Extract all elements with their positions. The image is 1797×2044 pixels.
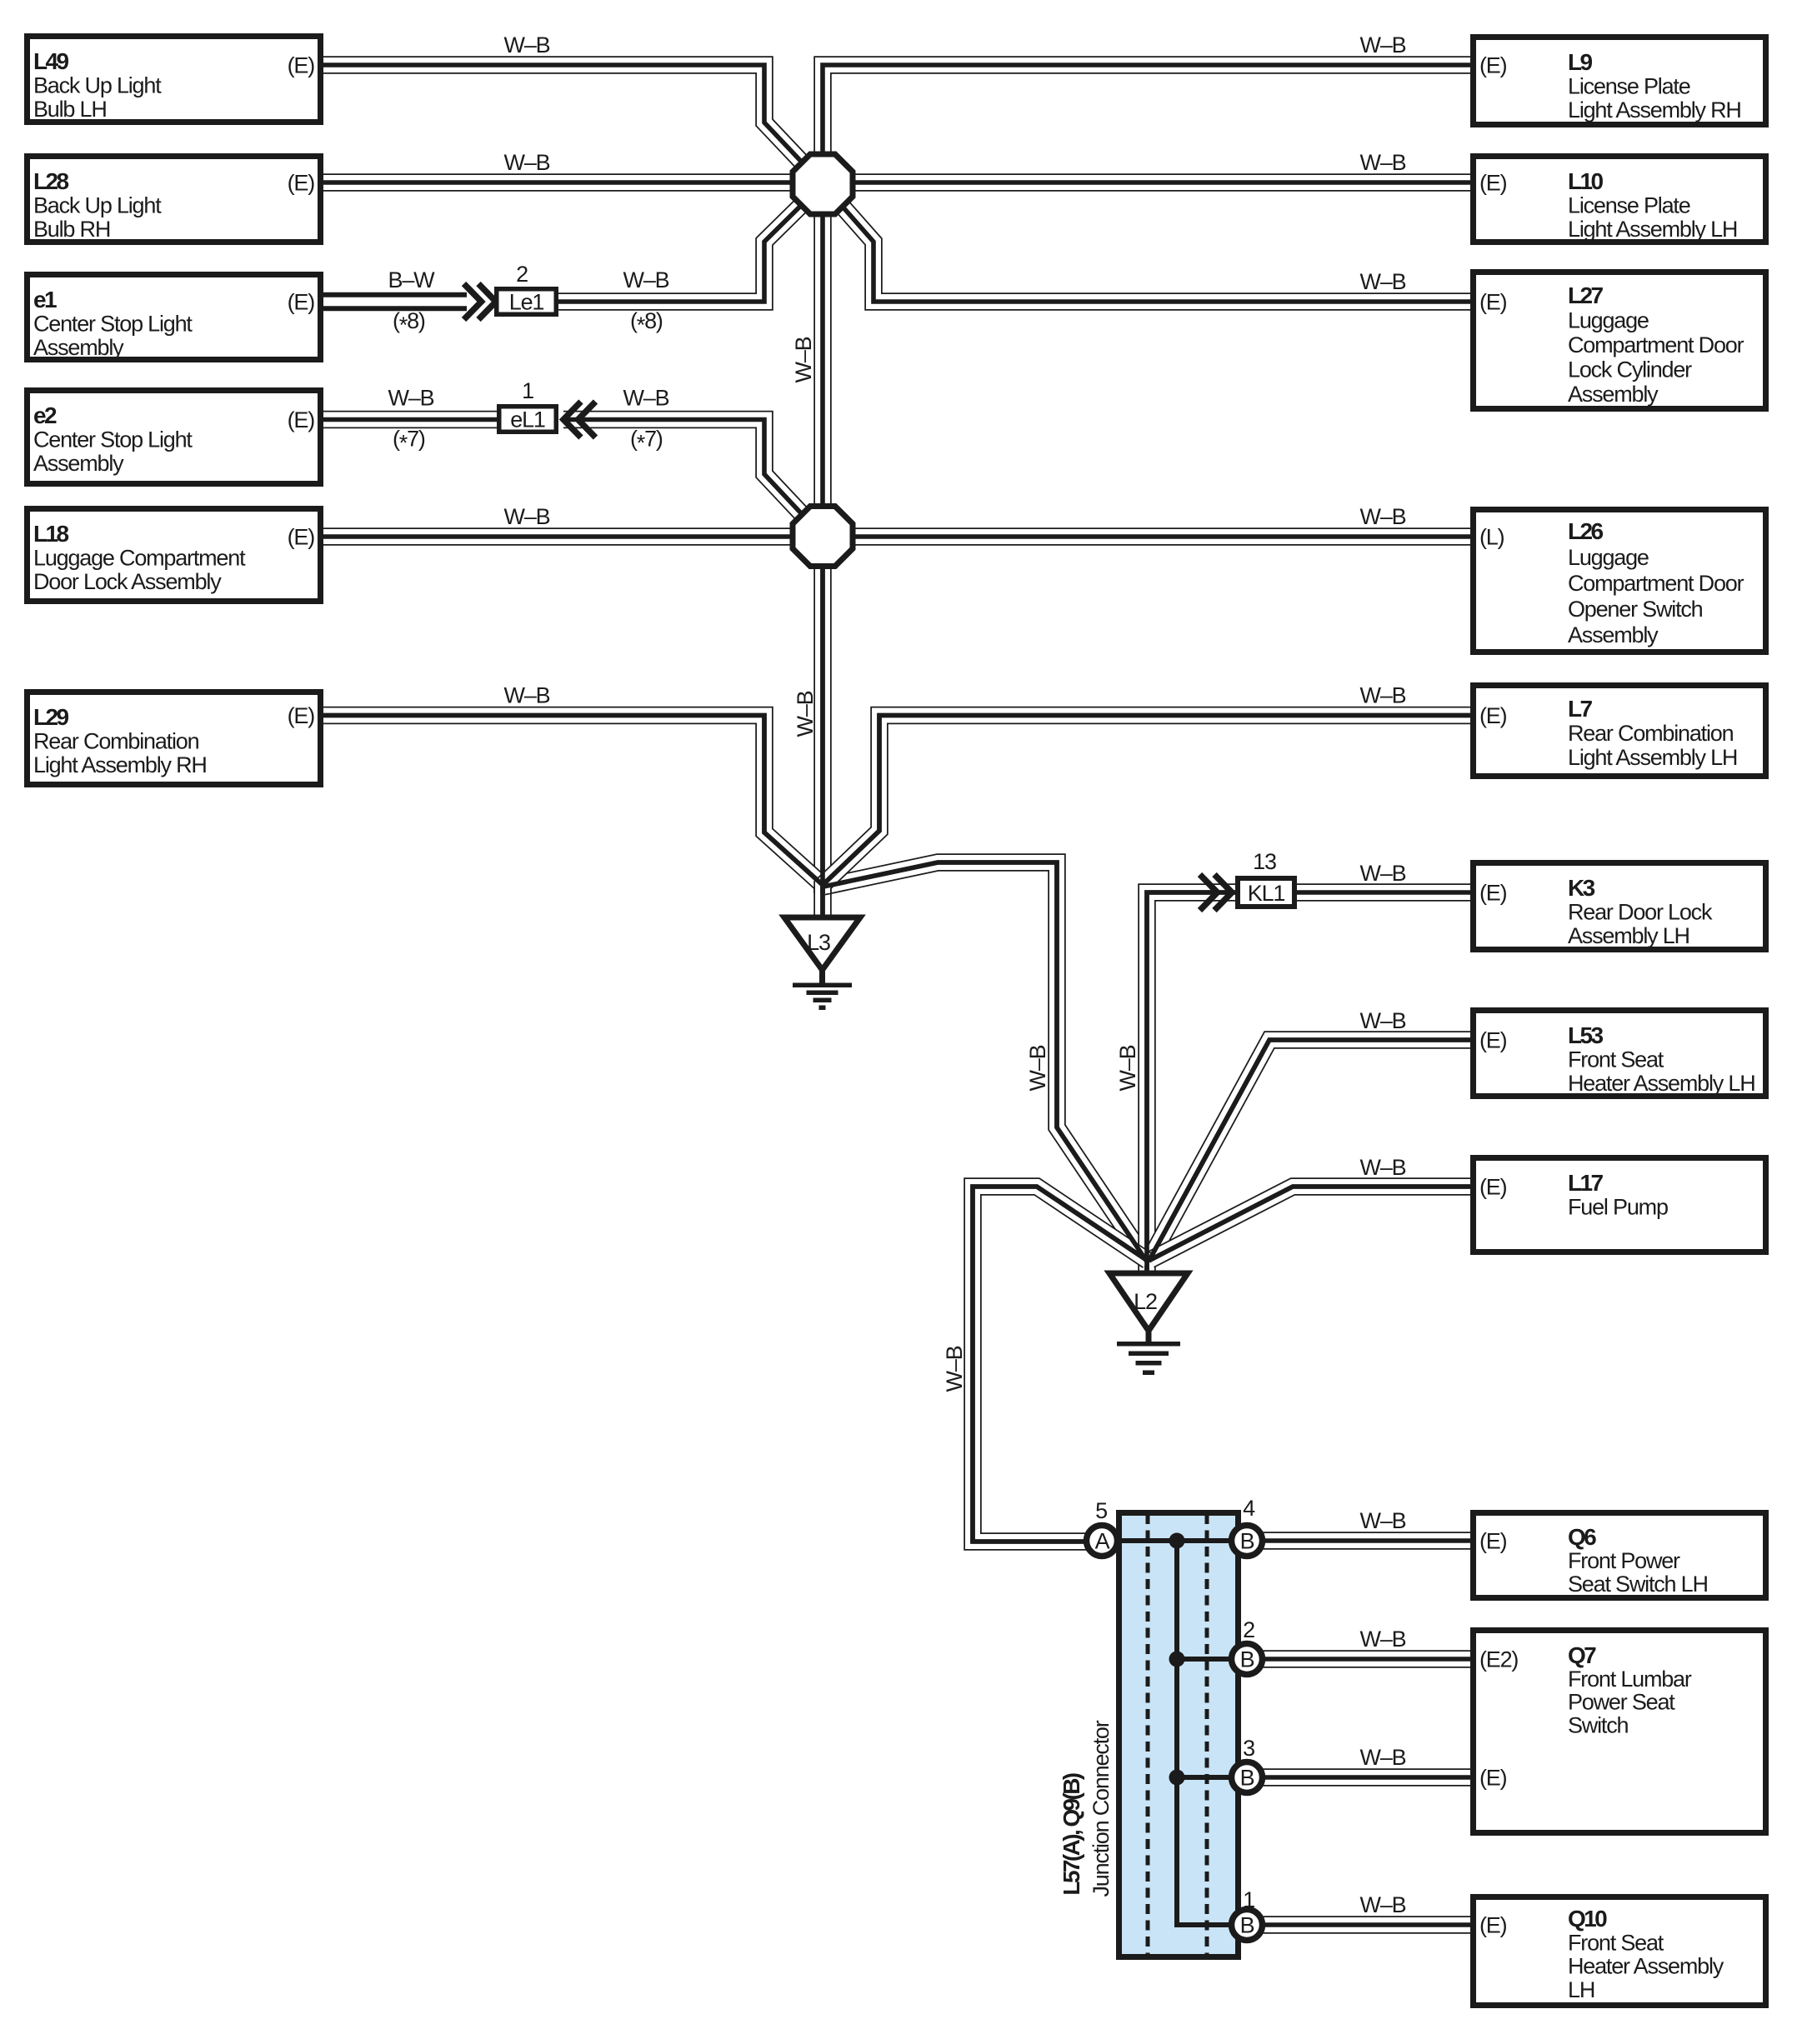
- svg-text:Rear Combination: Rear Combination: [1568, 721, 1734, 746]
- svg-text:Luggage: Luggage: [1568, 308, 1649, 333]
- svg-text:Lock Cylinder: Lock Cylinder: [1568, 357, 1692, 382]
- svg-text:B: B: [1240, 1529, 1254, 1554]
- svg-text:W–B: W–B: [504, 32, 550, 57]
- svg-text:Heater Assembly LH: Heater Assembly LH: [1568, 1071, 1755, 1096]
- svg-text:L27: L27: [1568, 282, 1603, 308]
- svg-text:2: 2: [1243, 1617, 1254, 1642]
- svg-text:Assembly: Assembly: [1568, 622, 1659, 647]
- svg-text:Door Lock Assembly: Door Lock Assembly: [33, 569, 222, 594]
- svg-text:W–B: W–B: [504, 683, 550, 708]
- svg-text:W–B: W–B: [504, 150, 550, 175]
- svg-text:L7: L7: [1568, 696, 1593, 722]
- svg-text:4: 4: [1243, 1496, 1255, 1521]
- svg-text:Junction Connector: Junction Connector: [1089, 1720, 1114, 1897]
- svg-text:3: 3: [1243, 1736, 1254, 1761]
- svg-text:(E): (E): [1479, 1175, 1507, 1200]
- svg-text:Q7: Q7: [1568, 1642, 1596, 1668]
- svg-text:L49: L49: [33, 48, 68, 74]
- svg-text:Front Power: Front Power: [1568, 1548, 1680, 1573]
- svg-text:B: B: [1240, 1647, 1254, 1672]
- svg-text:(E2): (E2): [1479, 1647, 1518, 1672]
- svg-text:A: A: [1095, 1529, 1110, 1554]
- svg-text:L10: L10: [1568, 168, 1603, 194]
- svg-text:e1: e1: [33, 287, 57, 312]
- svg-text:W–B: W–B: [1360, 1155, 1406, 1180]
- svg-text:(E): (E): [288, 703, 315, 728]
- svg-text:Center Stop Light: Center Stop Light: [33, 312, 193, 337]
- svg-text:(E): (E): [1479, 290, 1507, 315]
- svg-text:Light Assembly RH: Light Assembly RH: [1568, 97, 1741, 122]
- svg-text:Switch: Switch: [1568, 1712, 1629, 1737]
- svg-text:Assembly: Assembly: [33, 335, 124, 360]
- svg-text:Back Up Light: Back Up Light: [33, 73, 162, 98]
- svg-text:Back Up Light: Back Up Light: [33, 193, 162, 218]
- svg-text:W–B: W–B: [1360, 683, 1406, 708]
- svg-text:L17: L17: [1568, 1170, 1603, 1196]
- svg-text:Compartment Door: Compartment Door: [1568, 571, 1744, 596]
- svg-text:L26: L26: [1568, 518, 1603, 544]
- svg-text:13: 13: [1253, 849, 1276, 874]
- svg-text:L2: L2: [1134, 1289, 1157, 1314]
- svg-text:W–B: W–B: [623, 386, 669, 411]
- svg-text:(E): (E): [1479, 881, 1507, 906]
- svg-text:Assembly: Assembly: [33, 451, 124, 476]
- svg-text:Rear Combination: Rear Combination: [33, 729, 199, 754]
- svg-text:(L): (L): [1479, 525, 1504, 550]
- svg-text:L9: L9: [1568, 49, 1593, 75]
- svg-text:(E): (E): [1479, 1913, 1507, 1938]
- svg-text:W–B: W–B: [791, 337, 816, 382]
- svg-text:W–B: W–B: [1360, 1892, 1406, 1917]
- svg-text:W–B: W–B: [504, 504, 550, 529]
- svg-text:W–B: W–B: [1360, 504, 1406, 529]
- svg-text:(E): (E): [288, 407, 315, 432]
- svg-text:W–B: W–B: [623, 267, 669, 292]
- svg-text:Opener Switch: Opener Switch: [1568, 597, 1703, 622]
- svg-text:B–W: B–W: [388, 267, 436, 292]
- svg-text:Front Lumbar: Front Lumbar: [1568, 1667, 1692, 1692]
- svg-text:L3: L3: [807, 930, 830, 955]
- svg-text:(E): (E): [1479, 53, 1507, 78]
- svg-text:L28: L28: [33, 168, 68, 194]
- svg-text:Rear Door Lock: Rear Door Lock: [1568, 900, 1713, 925]
- svg-text:Fuel Pump: Fuel Pump: [1568, 1195, 1668, 1220]
- svg-text:Light Assembly LH: Light Assembly LH: [1568, 217, 1737, 242]
- svg-text:License Plate: License Plate: [1568, 193, 1690, 218]
- svg-text:B: B: [1240, 1766, 1254, 1791]
- svg-text:K3: K3: [1568, 875, 1595, 901]
- svg-text:Power Seat: Power Seat: [1568, 1690, 1675, 1715]
- svg-text:Center Stop Light: Center Stop Light: [33, 427, 193, 452]
- svg-text:(E): (E): [288, 525, 315, 550]
- svg-text:KL1: KL1: [1248, 881, 1285, 906]
- svg-text:W–B: W–B: [1360, 1008, 1406, 1033]
- svg-text:W–B: W–B: [1360, 269, 1406, 294]
- svg-text:Seat Switch LH: Seat Switch LH: [1568, 1572, 1708, 1597]
- svg-text:Le1: Le1: [509, 290, 544, 315]
- svg-text:License Plate: License Plate: [1568, 74, 1690, 99]
- svg-text:W–B: W–B: [1360, 1508, 1406, 1533]
- svg-text:(E): (E): [288, 171, 315, 196]
- svg-text:e2: e2: [33, 402, 57, 428]
- svg-text:(E): (E): [1479, 171, 1507, 196]
- svg-text:(*8): (*8): [630, 308, 663, 337]
- svg-text:(E): (E): [288, 290, 315, 315]
- svg-text:W–B: W–B: [388, 386, 434, 411]
- svg-text:(E): (E): [288, 53, 315, 78]
- svg-text:W–B: W–B: [942, 1346, 967, 1392]
- svg-text:Assembly: Assembly: [1568, 382, 1659, 407]
- svg-text:(*7): (*7): [630, 427, 663, 456]
- svg-text:(*8): (*8): [393, 308, 425, 337]
- svg-text:Compartment Door: Compartment Door: [1568, 332, 1744, 357]
- svg-text:Heater Assembly: Heater Assembly: [1568, 1954, 1724, 1979]
- svg-text:L18: L18: [33, 521, 68, 547]
- svg-text:L53: L53: [1568, 1022, 1603, 1048]
- svg-text:W–B: W–B: [1360, 861, 1406, 886]
- svg-text:Luggage Compartment: Luggage Compartment: [33, 546, 246, 571]
- svg-text:Front Seat: Front Seat: [1568, 1047, 1664, 1072]
- svg-text:1: 1: [522, 378, 533, 403]
- svg-text:W–B: W–B: [1360, 1745, 1406, 1770]
- svg-text:LH: LH: [1568, 1977, 1594, 2002]
- svg-text:L57(A), Q9(B): L57(A), Q9(B): [1059, 1773, 1084, 1895]
- svg-text:W–B: W–B: [1025, 1045, 1050, 1091]
- svg-text:Assembly LH: Assembly LH: [1568, 923, 1689, 948]
- svg-text:W–B: W–B: [1115, 1045, 1140, 1091]
- svg-text:(E): (E): [1479, 1028, 1507, 1053]
- svg-text:eL1: eL1: [510, 407, 545, 432]
- svg-text:(E): (E): [1479, 1529, 1507, 1554]
- svg-text:Bulb LH: Bulb LH: [33, 97, 107, 122]
- svg-text:B: B: [1240, 1913, 1254, 1938]
- svg-text:L29: L29: [33, 704, 68, 730]
- svg-text:Luggage: Luggage: [1568, 545, 1649, 570]
- svg-text:(E): (E): [1479, 1766, 1507, 1791]
- svg-text:5: 5: [1095, 1498, 1107, 1523]
- svg-text:Q10: Q10: [1568, 1906, 1607, 1932]
- svg-text:W–B: W–B: [1360, 32, 1406, 57]
- svg-text:W–B: W–B: [1360, 1627, 1406, 1652]
- svg-text:1: 1: [1243, 1887, 1254, 1912]
- svg-text:(E): (E): [1479, 703, 1507, 728]
- svg-text:W–B: W–B: [793, 691, 818, 737]
- svg-text:W–B: W–B: [1360, 150, 1406, 175]
- svg-text:(*7): (*7): [393, 427, 425, 456]
- svg-text:Q6: Q6: [1568, 1524, 1596, 1550]
- svg-text:Bulb RH: Bulb RH: [33, 217, 110, 242]
- svg-text:2: 2: [516, 262, 528, 287]
- svg-text:Light Assembly RH: Light Assembly RH: [33, 752, 207, 777]
- svg-text:Front Seat: Front Seat: [1568, 1930, 1664, 1955]
- svg-text:Light Assembly LH: Light Assembly LH: [1568, 745, 1737, 770]
